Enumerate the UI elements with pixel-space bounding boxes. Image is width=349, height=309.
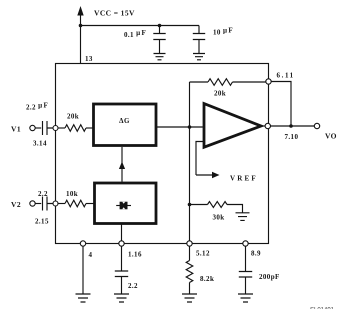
wire 30k to ground: [227, 205, 243, 213]
svg-text:6.11: 6.11: [277, 72, 295, 80]
junction feedback node: [188, 125, 192, 129]
wire pin 6,11 external to output node: [271, 82, 291, 126]
wire control line dG to multiplier: [121, 147, 123, 182]
pin 5,12: [187, 241, 192, 246]
resistor 10k (V2 input): [65, 200, 86, 207]
wire multiplier to pin 1,16: [121, 224, 123, 242]
svg-text:2.2: 2.2: [38, 190, 48, 198]
capacitor 2.2 (V2 input): [43, 197, 54, 211]
ground (pin 1,16): [114, 294, 129, 302]
svg-text:5.12: 5.12: [196, 250, 210, 258]
wire pin to resistor: [58, 203, 65, 205]
capacitor 200pF: [239, 272, 252, 295]
op-amp U1: [204, 104, 261, 148]
wire pin 1,16 to cap: [121, 246, 123, 271]
wire feedback vertical line: [189, 82, 191, 241]
svg-text:8.2k: 8.2k: [200, 275, 214, 283]
svg-text:V2: V2: [11, 200, 21, 209]
multiplier block: [95, 183, 157, 224]
pin 4: [80, 241, 85, 246]
svg-text:30k: 30k: [213, 214, 225, 222]
ground (200pF): [238, 294, 253, 302]
svg-text:VCC = 15V: VCC = 15V: [94, 9, 135, 18]
ground (0.1uF): [154, 54, 166, 60]
ground (10uF): [193, 54, 205, 60]
wire resistor to dG block: [86, 127, 93, 129]
pin 6,11: [266, 79, 271, 84]
svg-text:2.2: 2.2: [128, 282, 138, 290]
junction 0.1uF tap: [158, 24, 162, 28]
wire V2 to cap: [35, 203, 41, 205]
capacitor 0.1uF: [153, 26, 165, 54]
power VCC arrow: [77, 6, 83, 64]
wire V1 to cap: [35, 127, 41, 129]
junction 30k tap: [188, 203, 192, 207]
wire output to VO: [271, 125, 315, 127]
amp block dG: [94, 104, 157, 146]
svg-text:3.14: 3.14: [33, 140, 47, 148]
wire resistor to multiplier block: [86, 203, 94, 205]
svg-text:0.1 µF: 0.1 µF: [124, 29, 146, 39]
wire pin 8,9 to cap: [245, 246, 247, 271]
svg-text:13: 13: [85, 55, 93, 63]
svg-text:ΔG: ΔG: [119, 117, 130, 125]
wire 20k feedback row: [190, 81, 266, 83]
resistor 8.2k: [186, 261, 193, 283]
junction output node: [289, 124, 293, 128]
pin 2,15: [53, 201, 58, 206]
wire op-amp output: [261, 125, 265, 127]
svg-text:V1: V1: [11, 125, 21, 134]
ground (30k): [236, 213, 250, 221]
capacitor 2.2 (pin 1,16): [115, 271, 128, 294]
pin 3,14: [53, 126, 58, 131]
ground (8.2k): [182, 294, 197, 302]
wire pin to resistor: [58, 127, 65, 129]
arrow to VREF: [196, 174, 214, 176]
wire resistor to ground: [189, 283, 191, 295]
svg-text:20k: 20k: [67, 113, 79, 121]
ground (pin 4): [76, 294, 91, 302]
node VO terminal: [314, 123, 319, 128]
wire pin 5,12 to resistor: [189, 246, 191, 260]
resistor 30k: [208, 202, 227, 208]
wire pin 4 to ground: [82, 246, 84, 294]
pin 8,9: [243, 241, 248, 246]
svg-text:1.16: 1.16: [128, 251, 142, 259]
wire op-amp lower input stub: [196, 142, 203, 176]
junction on VCC line: [79, 24, 83, 28]
IC boundary box: [56, 64, 269, 244]
svg-text:10 µF: 10 µF: [213, 27, 233, 37]
wire VCC rail: [81, 25, 200, 27]
resistor 20k (V1 input): [65, 125, 86, 132]
svg-text:2.15: 2.15: [35, 218, 49, 226]
resistor 20k (feedback): [208, 79, 232, 86]
pin 1,16: [119, 241, 124, 246]
svg-text:VO: VO: [325, 132, 337, 141]
capacitor 2.2uF (V1 input): [43, 121, 54, 135]
wire dG output to op-amp: [157, 126, 203, 128]
arrow control up: [119, 162, 125, 170]
multiplier symbol: [116, 205, 131, 207]
pin 7,10 output: [265, 123, 270, 128]
wire to 30k: [190, 204, 208, 206]
svg-text:10k: 10k: [66, 190, 78, 198]
svg-text:4: 4: [89, 251, 93, 259]
svg-text:200pF: 200pF: [259, 273, 280, 281]
svg-text:2.2 µF: 2.2 µF: [26, 102, 48, 112]
capacitor 10uF: [193, 26, 205, 54]
svg-text:VREF: VREF: [230, 175, 258, 183]
svg-text:8.9: 8.9: [251, 250, 261, 258]
svg-text:20k: 20k: [214, 90, 226, 98]
svg-text:7.10: 7.10: [285, 133, 299, 141]
